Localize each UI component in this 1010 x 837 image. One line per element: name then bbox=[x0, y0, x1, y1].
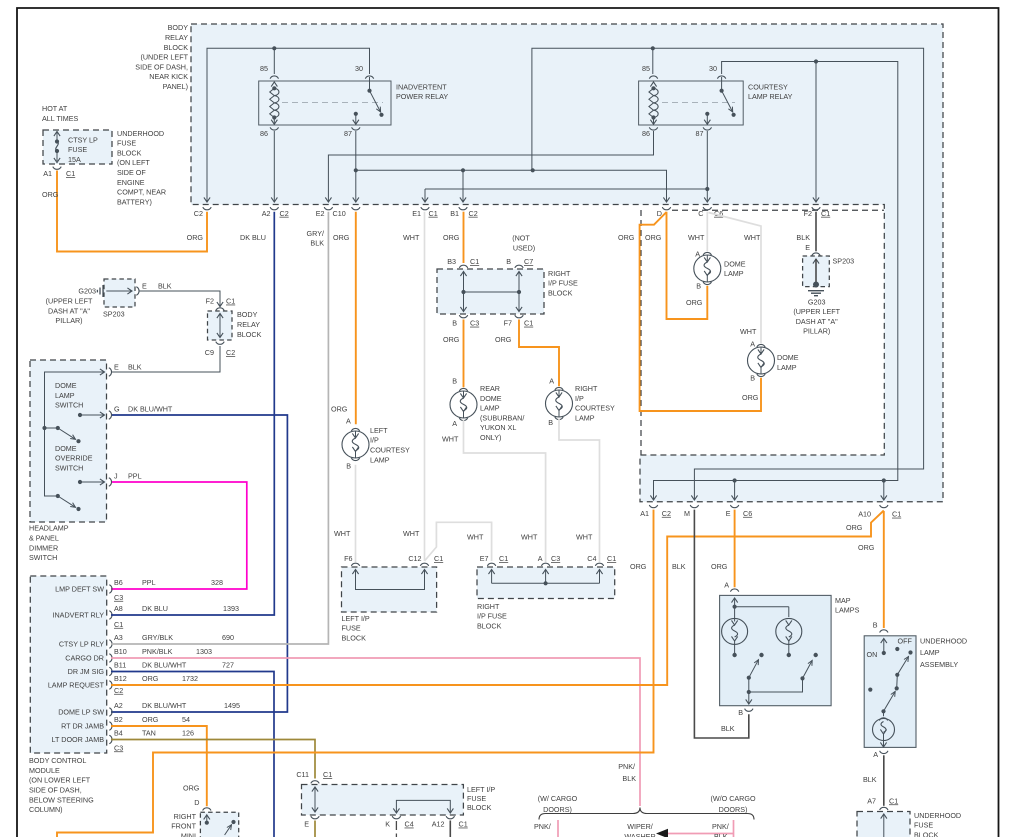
svg-text:A7: A7 bbox=[867, 796, 876, 805]
svg-text:C2: C2 bbox=[662, 509, 671, 518]
lamp underhood lamp bulb bbox=[873, 718, 895, 747]
svg-text:SIDE OF DASH,: SIDE OF DASH, bbox=[29, 786, 82, 795]
lamp map lamp left bbox=[722, 607, 748, 658]
lamp REAR DOME LAMP bbox=[450, 384, 524, 442]
svg-text:I/P FUSE: I/P FUSE bbox=[548, 279, 578, 288]
body control module box bbox=[30, 576, 106, 753]
wire BLK fuse K stub bbox=[395, 821, 397, 837]
svg-text:LAMP REQUEST: LAMP REQUEST bbox=[48, 681, 105, 690]
wire BLK F2 to SP203 right bbox=[805, 212, 816, 252]
svg-text:COURTESY: COURTESY bbox=[370, 446, 410, 455]
body relay block harness box (dashed blue region) bbox=[191, 24, 943, 502]
svg-text:WHT: WHT bbox=[334, 529, 351, 538]
svg-text:BLK: BLK bbox=[714, 832, 728, 837]
svg-text:86: 86 bbox=[260, 129, 268, 138]
svg-text:BLOCK: BLOCK bbox=[117, 148, 142, 157]
BCM row LMP DEFT SW pin B6 bbox=[55, 578, 223, 594]
svg-text:C6: C6 bbox=[743, 509, 752, 518]
svg-text:BLK: BLK bbox=[863, 775, 877, 784]
svg-text:1495: 1495 bbox=[224, 701, 240, 710]
svg-text:RIGHT: RIGHT bbox=[477, 602, 500, 611]
svg-text:ORG: ORG bbox=[686, 298, 703, 307]
svg-text:85: 85 bbox=[642, 64, 650, 73]
BCM connector C2 label bbox=[114, 686, 123, 695]
svg-text:E1: E1 bbox=[412, 209, 421, 218]
svg-text:C3: C3 bbox=[470, 319, 479, 328]
wire DK BLU/WHT dome switch G to BCM A2 bbox=[111, 415, 287, 712]
svg-text:FUSE: FUSE bbox=[467, 794, 486, 803]
svg-text:DASH AT "A": DASH AT "A" bbox=[48, 306, 90, 315]
wire ORG fuse B to rear dome lamp bbox=[443, 320, 464, 388]
svg-text:B12: B12 bbox=[114, 674, 127, 683]
svg-text:LAMP: LAMP bbox=[575, 413, 595, 422]
svg-text:F2: F2 bbox=[206, 297, 214, 306]
dome lamp switch / dome override switch box bbox=[30, 360, 107, 522]
svg-text:B11: B11 bbox=[114, 660, 126, 669]
svg-text:BLOCK: BLOCK bbox=[342, 634, 367, 643]
svg-text:BLOCK: BLOCK bbox=[548, 289, 573, 298]
svg-text:B: B bbox=[452, 319, 457, 328]
relay K2 coil bbox=[649, 82, 658, 124]
svg-text:RT DR JAMB: RT DR JAMB bbox=[61, 722, 104, 731]
relay K1 caption bbox=[396, 82, 448, 101]
svg-text:MAP: MAP bbox=[835, 596, 851, 605]
lamp DOME LAMP upper bbox=[694, 252, 746, 290]
junction at K1 pin 85 feed bbox=[272, 46, 276, 50]
svg-text:DOORS): DOORS) bbox=[543, 805, 572, 814]
junction dots on K1-87 net bbox=[354, 46, 655, 172]
svg-text:G: G bbox=[114, 405, 120, 414]
svg-text:C10: C10 bbox=[333, 209, 346, 218]
svg-text:328: 328 bbox=[211, 578, 223, 587]
svg-text:BLOCK: BLOCK bbox=[164, 43, 189, 52]
svg-text:A: A bbox=[724, 581, 729, 590]
connector labels C2 A2 E2 C10 E1 B1 D C F2 bbox=[194, 209, 830, 218]
svg-text:B6: B6 bbox=[114, 578, 123, 587]
wire colour labels under connector row bbox=[187, 229, 811, 248]
wire ORG A1 down-left to page bottom bbox=[57, 510, 654, 837]
svg-text:GRY/BLK: GRY/BLK bbox=[142, 633, 173, 642]
svg-text:RELAY: RELAY bbox=[165, 33, 188, 42]
wiper washer module link bbox=[624, 822, 733, 837]
HOT AT ALL TIMES caption bbox=[42, 104, 79, 123]
svg-text:A: A bbox=[452, 419, 457, 428]
wire: switched net relay K1-87 to C10, B1, D, relay K2-85, M bbox=[353, 48, 924, 500]
svg-text:C11: C11 bbox=[296, 770, 309, 779]
svg-text:I/P FUSE: I/P FUSE bbox=[477, 612, 507, 621]
svg-text:LT DOOR JAMB: LT DOOR JAMB bbox=[52, 735, 105, 744]
connector row at body relay block bottom edge bbox=[203, 207, 820, 210]
svg-text:ASSEMBLY: ASSEMBLY bbox=[920, 660, 958, 669]
lamp RIGHT I/P COURTESY LAMP bbox=[546, 384, 616, 427]
wire ORG A10 to underhood lamp B bbox=[846, 511, 884, 629]
wire DK BLU A2 connector to BCM A8 bbox=[111, 212, 274, 615]
body control module caption bbox=[29, 756, 94, 814]
relay K1 pin 87 bbox=[344, 112, 360, 138]
svg-text:(W/ CARGO: (W/ CARGO bbox=[538, 794, 578, 803]
svg-text:& PANEL: & PANEL bbox=[29, 534, 59, 543]
svg-text:COURTESY: COURTESY bbox=[575, 404, 615, 413]
svg-text:A1: A1 bbox=[43, 169, 52, 178]
svg-text:I/P: I/P bbox=[370, 436, 379, 445]
svg-text:(UNDER LEFT: (UNDER LEFT bbox=[140, 53, 188, 62]
BCM connector C3 label bbox=[114, 593, 123, 602]
svg-text:FUSE: FUSE bbox=[117, 139, 136, 148]
svg-text:ORG: ORG bbox=[495, 335, 512, 344]
svg-text:PANEL): PANEL) bbox=[163, 82, 188, 91]
svg-text:C7: C7 bbox=[524, 257, 533, 266]
svg-text:A2: A2 bbox=[114, 701, 123, 710]
svg-text:NEAR KICK: NEAR KICK bbox=[149, 72, 188, 81]
svg-text:CARGO DR: CARGO DR bbox=[65, 654, 104, 663]
svg-text:ALL TIMES: ALL TIMES bbox=[42, 114, 79, 123]
right I/P fuse block upper box bbox=[437, 234, 578, 328]
svg-text:TAN: TAN bbox=[142, 728, 156, 737]
wire ORG B1 to right fuse block B3 bbox=[463, 212, 465, 263]
svg-text:C1: C1 bbox=[323, 770, 332, 779]
svg-text:FRONT: FRONT bbox=[171, 822, 196, 831]
svg-text:ORG: ORG bbox=[331, 405, 348, 414]
svg-text:ONLY): ONLY) bbox=[480, 433, 501, 442]
svg-text:MODULE: MODULE bbox=[29, 766, 60, 775]
svg-text:DOME: DOME bbox=[480, 394, 502, 403]
svg-text:DOME: DOME bbox=[55, 444, 77, 453]
svg-text:C1: C1 bbox=[114, 620, 123, 629]
middle harness dashed box (roof connector region) bbox=[641, 210, 884, 455]
wire: net relay K2 pin30 to F2, A1, E, A10 bbox=[650, 62, 897, 501]
svg-text:C1: C1 bbox=[607, 554, 616, 563]
svg-text:(W/O CARGO: (W/O CARGO bbox=[710, 794, 756, 803]
wire ORG fuse F7 to right I/P courtesy lamp bbox=[495, 320, 559, 387]
map lamps internals bbox=[730, 589, 788, 617]
svg-text:UNDERHOOD: UNDERHOOD bbox=[914, 811, 961, 820]
wire GRY/BLK E2 connector to BCM A3 bbox=[111, 212, 328, 644]
wire WHT C to dome lamp 2 bbox=[709, 213, 762, 349]
svg-text:727: 727 bbox=[222, 660, 234, 669]
svg-text:(NOT: (NOT bbox=[512, 234, 530, 243]
wire ORG BCM B2 to right front door switch D bbox=[111, 726, 207, 806]
svg-text:LAMP RELAY: LAMP RELAY bbox=[748, 92, 793, 101]
svg-text:PILLAR): PILLAR) bbox=[55, 316, 82, 325]
svg-text:SIDE OF: SIDE OF bbox=[117, 168, 146, 177]
BCM row INADVERT RLY pin A8 bbox=[52, 604, 239, 620]
wire WHT C12 jog to E7 bbox=[425, 522, 492, 561]
svg-text:GRY/: GRY/ bbox=[307, 229, 324, 238]
splice SP203 right box bbox=[803, 253, 854, 288]
wire BLK underhood lamp A to A7 bbox=[863, 755, 884, 806]
wire: relay K1 pin 86 to A2 bbox=[271, 131, 277, 202]
svg-text:WHT: WHT bbox=[740, 327, 757, 336]
svg-text:DK BLU/WHT: DK BLU/WHT bbox=[142, 660, 187, 669]
BCM row LT DOOR JAMB pin B4 bbox=[52, 728, 194, 744]
ground G203 left bbox=[46, 285, 109, 325]
svg-text:ORG: ORG bbox=[858, 543, 875, 552]
svg-text:SWITCH: SWITCH bbox=[55, 463, 83, 472]
wire WHT rear dome lamp A to fuse block A bbox=[442, 420, 546, 562]
svg-text:C3: C3 bbox=[114, 743, 123, 752]
map lamps assembly box bbox=[720, 595, 860, 705]
svg-text:(SUBURBAN/: (SUBURBAN/ bbox=[480, 413, 524, 422]
svg-text:E: E bbox=[142, 282, 147, 291]
svg-text:B: B bbox=[738, 708, 743, 717]
junction on K2-87 net bbox=[705, 187, 709, 191]
svg-text:B: B bbox=[548, 418, 553, 427]
wire WHT C to dome lamp 1 bbox=[695, 212, 707, 259]
splice SP203 left box bbox=[103, 279, 139, 319]
dome switch pin labels E G J bbox=[114, 405, 173, 481]
svg-text:D: D bbox=[194, 798, 199, 807]
svg-text:K: K bbox=[385, 820, 390, 829]
svg-text:ORG: ORG bbox=[187, 233, 204, 242]
lamp LEFT I/P COURTESY LAMP bbox=[342, 426, 410, 471]
wire DK BLU/WHT BCM B11 to page bottom bbox=[111, 672, 274, 837]
svg-text:87: 87 bbox=[696, 129, 704, 138]
svg-text:C2: C2 bbox=[469, 209, 478, 218]
svg-text:LAMP: LAMP bbox=[480, 404, 500, 413]
svg-text:WHT: WHT bbox=[403, 233, 420, 242]
svg-text:DOME: DOME bbox=[777, 353, 799, 362]
svg-text:DOME: DOME bbox=[724, 259, 746, 268]
relay K1 pin 85 bbox=[260, 64, 279, 79]
dome lamp switch internals bbox=[42, 368, 111, 511]
right front door jamb switch connector D bbox=[183, 783, 211, 810]
wire: net from C2 to relay K1 pins 85/30 bbox=[204, 48, 370, 202]
svg-text:ON: ON bbox=[867, 650, 878, 659]
svg-text:C1: C1 bbox=[524, 319, 533, 328]
wire WHT E1 to C12 bbox=[403, 212, 425, 561]
svg-text:PNK/: PNK/ bbox=[712, 822, 729, 831]
svg-text:C: C bbox=[698, 209, 703, 218]
svg-text:WHT: WHT bbox=[442, 434, 459, 443]
svg-text:C1: C1 bbox=[459, 820, 468, 829]
svg-text:WIPER/: WIPER/ bbox=[627, 822, 653, 831]
svg-text:DIMMER: DIMMER bbox=[29, 543, 58, 552]
right front mini door switch box bbox=[171, 812, 238, 837]
svg-text:B3: B3 bbox=[447, 257, 456, 266]
fuse CTSY LP 15A symbol bbox=[54, 132, 98, 164]
svg-text:HEADLAMP: HEADLAMP bbox=[29, 524, 69, 533]
svg-text:1393: 1393 bbox=[223, 604, 239, 613]
svg-text:C1: C1 bbox=[499, 554, 508, 563]
wire ORG C10 to left I/P courtesy lamp bbox=[331, 212, 356, 426]
body relay block caption bbox=[135, 23, 188, 91]
underhood lamp connector B top bbox=[880, 630, 888, 633]
svg-text:C2: C2 bbox=[280, 209, 289, 218]
svg-text:BLOCK: BLOCK bbox=[914, 831, 939, 837]
wire: relay K2 pin 87 to C and E1 bbox=[422, 131, 711, 202]
svg-text:ORG: ORG bbox=[711, 562, 728, 571]
svg-text:A: A bbox=[873, 750, 878, 759]
svg-text:1732: 1732 bbox=[182, 674, 198, 683]
svg-text:E: E bbox=[114, 362, 119, 371]
svg-text:WHT: WHT bbox=[688, 233, 705, 242]
wire PNK w/ cargo doors branch bbox=[534, 820, 558, 837]
svg-text:G203: G203 bbox=[78, 287, 96, 296]
svg-text:WHT: WHT bbox=[403, 529, 420, 538]
headlamp and panel dimmer switch caption bbox=[29, 524, 69, 562]
svg-text:C3: C3 bbox=[551, 554, 560, 563]
wire PPL dome override J to BCM B6 bbox=[111, 482, 247, 589]
svg-text:FUSE: FUSE bbox=[342, 624, 361, 633]
svg-text:E: E bbox=[304, 820, 309, 829]
svg-text:690: 690 bbox=[222, 633, 234, 642]
svg-text:1303: 1303 bbox=[196, 647, 212, 656]
wire BLK body relay block C9 to dome lamp switch E bbox=[112, 346, 220, 372]
svg-text:INADVERTENT: INADVERTENT bbox=[396, 82, 447, 91]
svg-text:E2: E2 bbox=[316, 209, 325, 218]
svg-text:BLK: BLK bbox=[128, 362, 142, 371]
svg-text:CTSY LP: CTSY LP bbox=[68, 136, 98, 145]
brace for cargo door options bbox=[538, 794, 756, 820]
BCM connector C3 label lower bbox=[114, 743, 123, 752]
svg-text:BLK: BLK bbox=[672, 562, 686, 571]
svg-text:BLK: BLK bbox=[796, 233, 810, 242]
svg-text:RELAY: RELAY bbox=[237, 320, 260, 329]
svg-text:ORG: ORG bbox=[333, 233, 350, 242]
svg-text:LAMPS: LAMPS bbox=[835, 606, 860, 615]
left I/P fuse block bottom box bbox=[296, 770, 495, 829]
svg-text:FUSE: FUSE bbox=[68, 145, 87, 154]
wire BLK M to map lamps B bbox=[672, 510, 749, 738]
svg-text:LAMP: LAMP bbox=[724, 269, 744, 278]
svg-text:(ON LOWER LEFT: (ON LOWER LEFT bbox=[29, 776, 91, 785]
underhood fuse block caption bbox=[117, 129, 166, 207]
svg-text:A: A bbox=[538, 554, 543, 563]
right I/P fuse block mid box bbox=[467, 533, 616, 631]
wire TAN fuse E to page bottom bbox=[314, 821, 316, 837]
svg-text:DK BLU/WHT: DK BLU/WHT bbox=[142, 701, 187, 710]
svg-text:B4: B4 bbox=[114, 728, 123, 737]
svg-text:30: 30 bbox=[709, 64, 717, 73]
svg-text:CTSY LP RLY: CTSY LP RLY bbox=[59, 640, 104, 649]
svg-text:PNK/: PNK/ bbox=[534, 822, 551, 831]
underhood lamp switch bbox=[867, 636, 913, 716]
svg-text:RIGHT: RIGHT bbox=[575, 384, 598, 393]
svg-text:F6: F6 bbox=[344, 554, 352, 563]
relay K1 pin 30 and switch bbox=[355, 64, 384, 117]
svg-text:ORG: ORG bbox=[645, 233, 662, 242]
wire: relay K2 pin 86 to E2 bbox=[325, 131, 653, 202]
svg-text:C1: C1 bbox=[470, 257, 479, 266]
svg-text:COLUMN): COLUMN) bbox=[29, 805, 63, 814]
svg-text:85: 85 bbox=[260, 64, 268, 73]
svg-text:C2: C2 bbox=[194, 209, 203, 218]
svg-text:LEFT: LEFT bbox=[370, 426, 388, 435]
svg-text:B: B bbox=[696, 281, 701, 290]
svg-text:F2: F2 bbox=[804, 209, 812, 218]
svg-text:ORG: ORG bbox=[142, 715, 159, 724]
svg-text:USED): USED) bbox=[513, 243, 535, 252]
svg-text:BODY: BODY bbox=[237, 310, 258, 319]
svg-text:POWER RELAY: POWER RELAY bbox=[396, 92, 448, 101]
svg-text:C1: C1 bbox=[434, 554, 443, 563]
svg-text:ORG: ORG bbox=[630, 562, 647, 571]
svg-text:LAMP: LAMP bbox=[55, 391, 75, 400]
svg-text:WASHER: WASHER bbox=[624, 832, 655, 837]
svg-text:A: A bbox=[549, 376, 554, 385]
relay K2 caption bbox=[748, 82, 793, 101]
svg-text:A3: A3 bbox=[114, 633, 123, 642]
label PNK/BLK above brace bbox=[618, 762, 636, 783]
svg-text:PILLAR): PILLAR) bbox=[803, 327, 830, 336]
svg-text:SP203: SP203 bbox=[833, 256, 855, 265]
svg-text:REAR: REAR bbox=[480, 384, 500, 393]
svg-text:SWITCH: SWITCH bbox=[29, 553, 57, 562]
svg-text:SIDE OF DASH,: SIDE OF DASH, bbox=[135, 62, 188, 71]
svg-text:BLK: BLK bbox=[622, 774, 636, 783]
svg-text:C4: C4 bbox=[405, 820, 414, 829]
BCM row DR JM SIG pin B11 bbox=[68, 660, 234, 676]
svg-text:DK BLU: DK BLU bbox=[142, 604, 168, 613]
svg-text:FUSE: FUSE bbox=[914, 821, 933, 830]
svg-text:DASH AT "A": DASH AT "A" bbox=[796, 317, 838, 326]
BCM connector C1 label bbox=[114, 620, 123, 629]
svg-text:BODY CONTROL: BODY CONTROL bbox=[29, 756, 86, 765]
svg-text:LEFT I/P: LEFT I/P bbox=[342, 614, 370, 623]
svg-text:87: 87 bbox=[344, 129, 352, 138]
svg-text:B: B bbox=[506, 257, 511, 266]
svg-text:ORG: ORG bbox=[618, 233, 635, 242]
svg-text:(ON LEFT: (ON LEFT bbox=[117, 158, 150, 167]
svg-text:RIGHT: RIGHT bbox=[548, 269, 571, 278]
svg-text:C1: C1 bbox=[892, 510, 901, 519]
svg-text:DOORS): DOORS) bbox=[719, 805, 748, 814]
svg-text:HOT AT: HOT AT bbox=[42, 104, 68, 113]
svg-text:F7: F7 bbox=[504, 319, 512, 328]
svg-text:WHT: WHT bbox=[576, 533, 593, 542]
svg-text:B1: B1 bbox=[450, 209, 459, 218]
lamp map lamp right bbox=[776, 618, 802, 657]
relay K1 coil bbox=[270, 82, 279, 124]
BCM row LAMP REQUEST pin B12 bbox=[48, 674, 198, 690]
svg-text:86: 86 bbox=[642, 129, 650, 138]
svg-text:WHT: WHT bbox=[744, 233, 761, 242]
svg-text:ORG: ORG bbox=[443, 233, 460, 242]
ground G203 right bbox=[793, 291, 840, 336]
svg-text:A2: A2 bbox=[262, 209, 271, 218]
underhood fuse block bottom connector A7 C1 bbox=[857, 796, 961, 837]
svg-text:B: B bbox=[750, 373, 755, 382]
body relay block small box F2/C9 bbox=[205, 297, 262, 357]
svg-text:MINI: MINI bbox=[181, 832, 196, 837]
svg-text:ORG: ORG bbox=[443, 335, 460, 344]
svg-text:LAMP: LAMP bbox=[777, 363, 797, 372]
svg-text:G203: G203 bbox=[808, 297, 826, 306]
svg-text:OVERRIDE: OVERRIDE bbox=[55, 454, 93, 463]
svg-text:126: 126 bbox=[182, 728, 194, 737]
junction dots on K2-30 net bbox=[733, 59, 886, 482]
svg-text:(UPPER LEFT: (UPPER LEFT bbox=[46, 297, 93, 306]
wire ORG dome lamp 1 B to connector D bbox=[667, 212, 708, 319]
BCM row RT DR JAMB pin B2 bbox=[61, 715, 190, 731]
svg-text:DR JM SIG: DR JM SIG bbox=[68, 667, 105, 676]
wire PNK/BLK w/o cargo doors branch bbox=[712, 820, 734, 837]
svg-text:ORG: ORG bbox=[846, 523, 863, 532]
wire ORG BCM B12 to A10 connector bbox=[111, 511, 884, 686]
wire BLK fuse A12 to page bottom bbox=[449, 821, 451, 837]
svg-text:COURTESY: COURTESY bbox=[748, 82, 788, 91]
svg-text:E7: E7 bbox=[480, 554, 489, 563]
svg-text:C1: C1 bbox=[226, 297, 235, 306]
svg-text:WHT: WHT bbox=[521, 533, 538, 542]
svg-text:PNK/: PNK/ bbox=[618, 762, 635, 771]
svg-text:LEFT I/P: LEFT I/P bbox=[467, 785, 495, 794]
svg-text:ORG: ORG bbox=[742, 393, 759, 402]
svg-text:BLOCK: BLOCK bbox=[237, 330, 262, 339]
BCM row CARGO DR pin B10 bbox=[65, 647, 212, 663]
relay K1 INADVERTENT POWER RELAY body bbox=[259, 81, 391, 125]
svg-text:WHT: WHT bbox=[467, 533, 484, 542]
